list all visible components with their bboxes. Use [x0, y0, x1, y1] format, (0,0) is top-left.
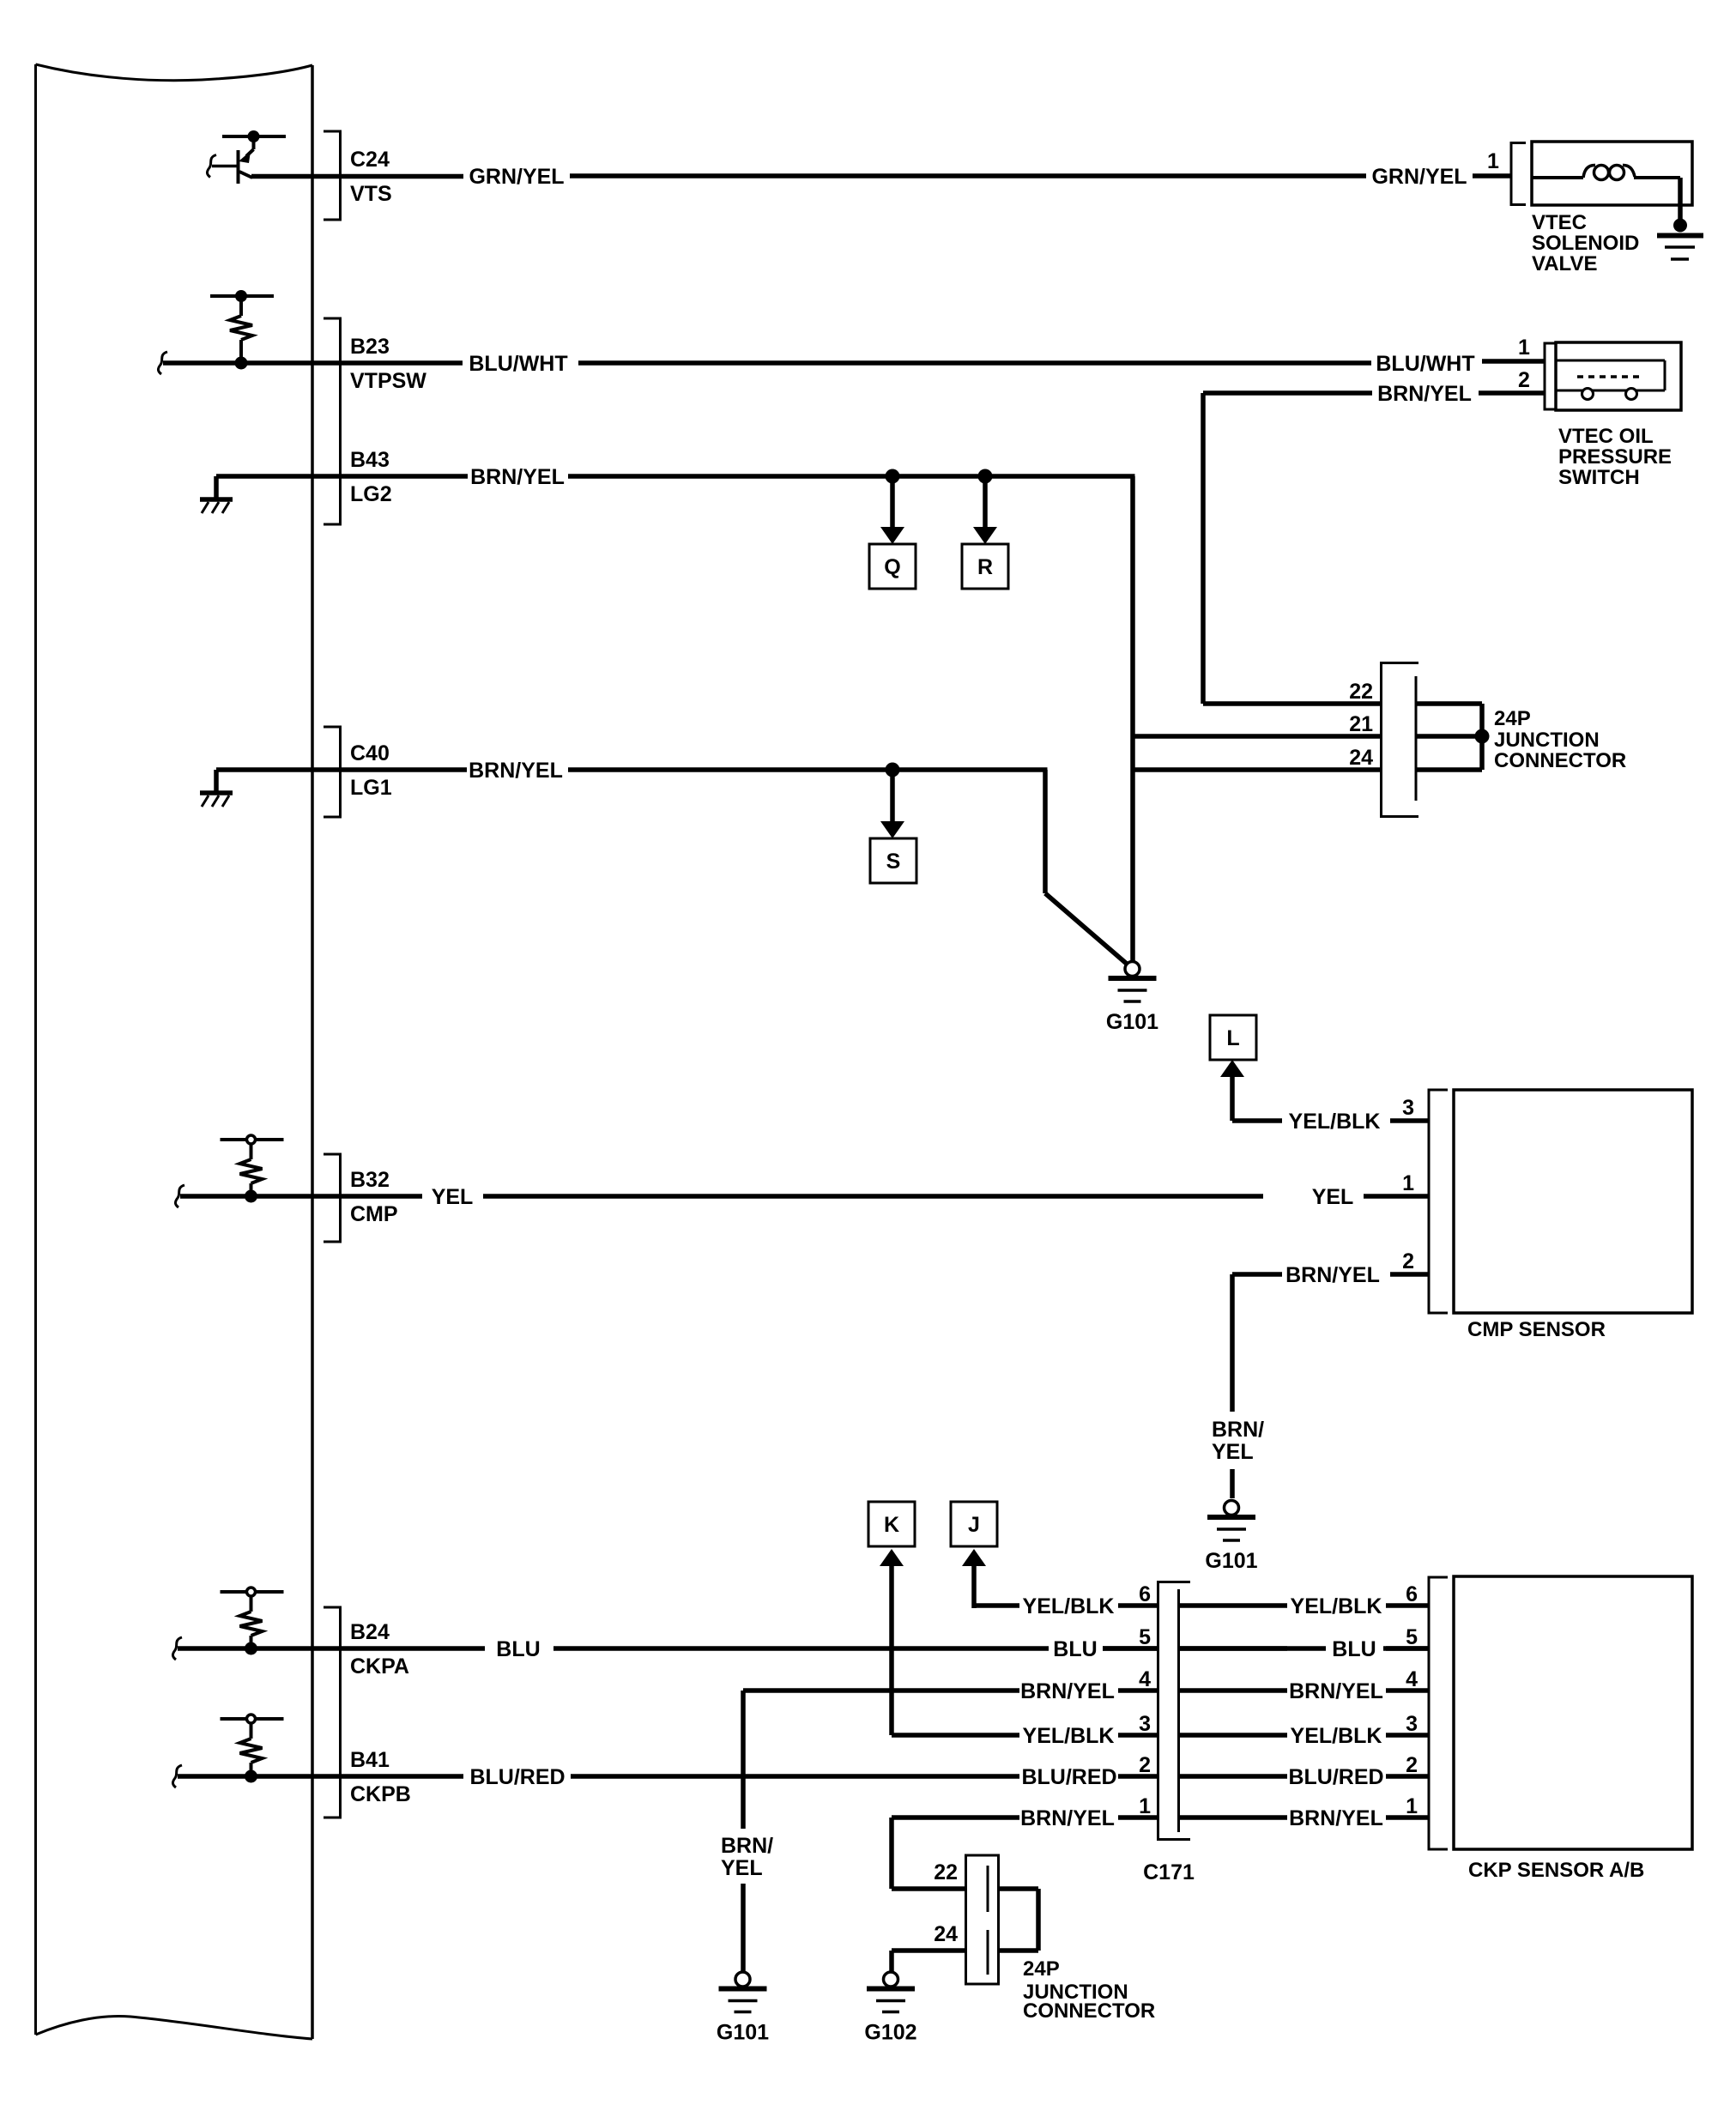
svg-text:C40: C40	[350, 741, 390, 765]
svg-text:VALVE: VALVE	[1532, 252, 1597, 275]
svg-text:G102: G102	[864, 2021, 916, 2045]
svg-text:BRN/YEL: BRN/YEL	[1377, 382, 1472, 406]
svg-text:YEL/BLK: YEL/BLK	[1023, 1594, 1115, 1618]
svg-text:B43: B43	[350, 448, 390, 472]
svg-text:1: 1	[1487, 149, 1499, 173]
svg-text:YEL/BLK: YEL/BLK	[1023, 1724, 1115, 1748]
svg-text:3: 3	[1406, 1712, 1418, 1736]
svg-text:LG1: LG1	[350, 776, 392, 800]
svg-text:3: 3	[1139, 1712, 1151, 1736]
svg-text:22: 22	[934, 1860, 958, 1884]
svg-text:SWITCH: SWITCH	[1558, 466, 1640, 489]
svg-text:LG2: LG2	[350, 482, 392, 506]
svg-text:S: S	[886, 850, 901, 874]
svg-text:C24: C24	[350, 148, 390, 172]
svg-text:BLU/RED: BLU/RED	[1288, 1765, 1383, 1789]
svg-text:2: 2	[1518, 368, 1530, 392]
svg-text:BLU/RED: BLU/RED	[469, 1765, 565, 1789]
svg-text:BRN/YEL: BRN/YEL	[469, 759, 563, 783]
svg-text:22: 22	[1349, 680, 1373, 704]
svg-text:VTEC OIL: VTEC OIL	[1558, 425, 1654, 448]
svg-text:CONNECTOR: CONNECTOR	[1494, 749, 1626, 772]
svg-text:1: 1	[1402, 1171, 1414, 1195]
svg-text:PRESSURE: PRESSURE	[1558, 445, 1672, 469]
svg-text:BRN/: BRN/	[721, 1834, 773, 1858]
svg-text:B41: B41	[350, 1748, 390, 1772]
svg-text:BLU/RED: BLU/RED	[1021, 1765, 1116, 1789]
svg-text:BLU/WHT: BLU/WHT	[469, 352, 567, 376]
svg-text:24: 24	[1349, 746, 1373, 770]
svg-text:BLU: BLU	[1332, 1637, 1376, 1661]
svg-text:VTS: VTS	[350, 182, 392, 206]
svg-text:1: 1	[1406, 1794, 1418, 1818]
svg-text:BRN/YEL: BRN/YEL	[1020, 1806, 1115, 1830]
svg-text:CMP: CMP	[350, 1202, 398, 1226]
svg-text:24: 24	[934, 1922, 958, 1946]
svg-text:4: 4	[1406, 1667, 1418, 1691]
svg-text:GRN/YEL: GRN/YEL	[1371, 165, 1467, 189]
svg-text:24P: 24P	[1494, 707, 1531, 730]
svg-text:YEL/BLK: YEL/BLK	[1289, 1110, 1381, 1134]
svg-text:R: R	[977, 555, 993, 579]
svg-text:G101: G101	[1205, 1549, 1257, 1573]
svg-text:6: 6	[1139, 1582, 1151, 1606]
svg-text:B32: B32	[350, 1168, 390, 1192]
svg-text:SOLENOID: SOLENOID	[1532, 232, 1639, 255]
svg-text:B23: B23	[350, 335, 390, 359]
svg-text:YEL: YEL	[721, 1856, 763, 1880]
svg-text:G101: G101	[1106, 1010, 1158, 1034]
svg-text:BRN/YEL: BRN/YEL	[1289, 1679, 1383, 1703]
svg-text:BRN/YEL: BRN/YEL	[1285, 1263, 1380, 1287]
svg-text:B24: B24	[350, 1620, 390, 1644]
svg-text:CMP SENSOR: CMP SENSOR	[1467, 1318, 1606, 1341]
svg-text:BLU/WHT: BLU/WHT	[1376, 352, 1474, 376]
svg-text:C171: C171	[1143, 1860, 1195, 1884]
svg-text:CKPA: CKPA	[350, 1654, 409, 1679]
svg-text:CONNECTOR: CONNECTOR	[1023, 1999, 1155, 2023]
svg-text:VTPSW: VTPSW	[350, 369, 426, 393]
svg-text:BRN/YEL: BRN/YEL	[1020, 1679, 1115, 1703]
svg-text:2: 2	[1402, 1249, 1414, 1273]
svg-text:24P: 24P	[1023, 1957, 1060, 1981]
svg-text:5: 5	[1139, 1625, 1151, 1649]
svg-text:YEL: YEL	[1212, 1440, 1254, 1464]
svg-text:2: 2	[1406, 1753, 1418, 1777]
svg-text:GRN/YEL: GRN/YEL	[469, 165, 564, 189]
svg-text:4: 4	[1139, 1667, 1151, 1691]
svg-text:3: 3	[1402, 1096, 1414, 1120]
svg-text:J: J	[968, 1513, 980, 1537]
svg-text:JUNCTION: JUNCTION	[1494, 729, 1600, 752]
svg-text:BLU: BLU	[496, 1637, 540, 1661]
svg-text:YEL/BLK: YEL/BLK	[1291, 1594, 1382, 1618]
svg-text:YEL/BLK: YEL/BLK	[1291, 1724, 1382, 1748]
svg-text:1: 1	[1139, 1794, 1151, 1818]
svg-text:CKP SENSOR A/B: CKP SENSOR A/B	[1468, 1859, 1644, 1882]
svg-text:CKPB: CKPB	[350, 1782, 411, 1806]
svg-text:YEL: YEL	[432, 1185, 474, 1209]
svg-text:BRN/: BRN/	[1212, 1418, 1264, 1442]
svg-text:Q: Q	[884, 555, 900, 579]
svg-text:K: K	[884, 1513, 899, 1537]
svg-text:5: 5	[1406, 1625, 1418, 1649]
svg-text:L: L	[1226, 1026, 1239, 1050]
svg-text:YEL: YEL	[1312, 1185, 1354, 1209]
svg-text:BRN/YEL: BRN/YEL	[1289, 1806, 1383, 1830]
svg-text:2: 2	[1139, 1753, 1151, 1777]
svg-text:VTEC: VTEC	[1532, 211, 1587, 234]
svg-text:BRN/YEL: BRN/YEL	[470, 465, 565, 489]
svg-text:21: 21	[1349, 712, 1373, 736]
svg-text:BLU: BLU	[1053, 1637, 1097, 1661]
svg-text:G101: G101	[717, 2021, 769, 2045]
svg-text:1: 1	[1518, 336, 1530, 360]
svg-text:6: 6	[1406, 1582, 1418, 1606]
